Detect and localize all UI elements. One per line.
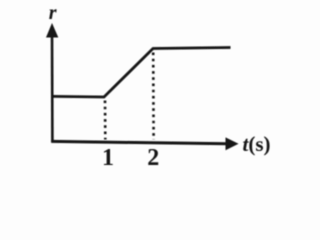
dotted line at t=2 [152, 53, 155, 140]
x-axis [51, 141, 228, 143]
y-axis arrowhead [46, 23, 58, 38]
svg-text:1: 1 [102, 145, 114, 171]
curve: flat, ramp, flat [53, 48, 231, 98]
x-axis arrowhead [226, 137, 239, 150]
dotted line at t=1 [104, 101, 107, 140]
svg-text:2: 2 [147, 145, 159, 171]
y-axis [51, 32, 54, 142]
svg-text:r: r [49, 2, 57, 24]
svg-text:t(s): t(s) [243, 132, 271, 156]
